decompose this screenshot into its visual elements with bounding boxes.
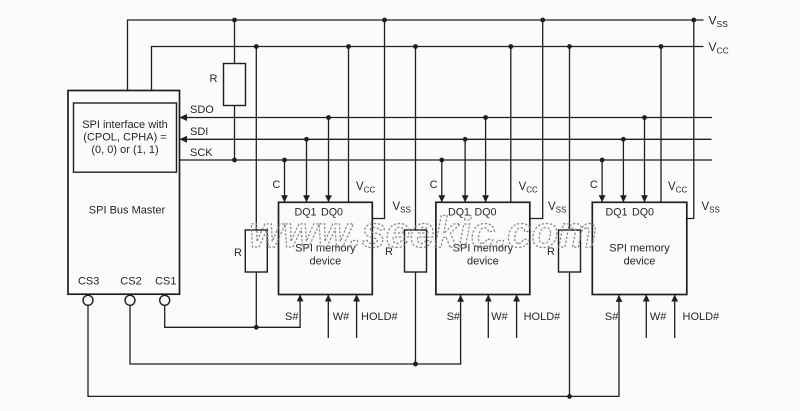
svg-text:(0, 0) or (1, 1): (0, 0) or (1, 1) — [91, 144, 158, 156]
svg-text:(CPOL, CPHA) =: (CPOL, CPHA) = — [83, 132, 166, 144]
svg-text:SDI: SDI — [190, 126, 208, 138]
svg-text:CS1: CS1 — [155, 276, 176, 288]
svg-text:device: device — [467, 256, 499, 268]
svg-text:S#: S# — [605, 311, 619, 323]
svg-text:HOLD#: HOLD# — [361, 311, 399, 323]
svg-text:SPI memory: SPI memory — [609, 243, 670, 255]
svg-text:CS3: CS3 — [78, 276, 99, 288]
svg-text:SPI interface with: SPI interface with — [82, 119, 168, 131]
svg-text:C: C — [590, 179, 598, 191]
svg-text:C: C — [272, 179, 280, 191]
svg-text:HOLD#: HOLD# — [524, 311, 562, 323]
svg-text:W#: W# — [333, 311, 350, 323]
svg-text:HOLD#: HOLD# — [683, 311, 721, 323]
svg-text:DQ0: DQ0 — [632, 207, 654, 219]
svg-text:SPI Bus Master: SPI Bus Master — [89, 205, 166, 217]
svg-text:device: device — [310, 256, 342, 268]
svg-text:DQ1: DQ1 — [606, 207, 628, 219]
svg-text:W#: W# — [650, 311, 667, 323]
svg-text:www.seekic.com: www.seekic.com — [249, 208, 597, 257]
svg-text:S#: S# — [447, 311, 461, 323]
svg-text:C: C — [430, 179, 438, 191]
svg-text:SCK: SCK — [190, 147, 213, 159]
svg-text:CS2: CS2 — [120, 276, 141, 288]
svg-text:R: R — [234, 247, 242, 259]
svg-text:R: R — [210, 73, 218, 85]
svg-text:device: device — [624, 256, 656, 268]
svg-text:W#: W# — [491, 311, 508, 323]
svg-text:SDO: SDO — [190, 104, 214, 116]
svg-text:S#: S# — [285, 311, 299, 323]
